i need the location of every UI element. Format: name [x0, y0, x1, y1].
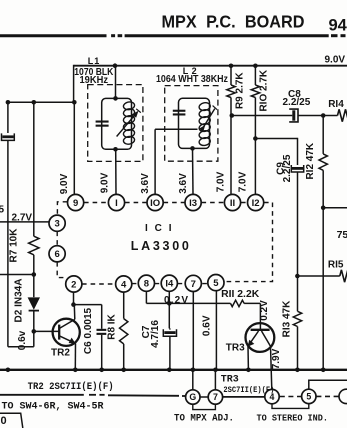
resistor R11 2.2K	[221, 289, 260, 307]
wire 5 to edge connector dashed	[316, 395, 338, 397]
svg-text:R9 2.7K: R9 2.7K	[234, 72, 245, 109]
IC pin 9	[68, 194, 84, 210]
wire C8 to R14 node	[298, 115, 337, 117]
bracket TO MPX ADJ	[193, 404, 216, 409]
svg-text:0: 0	[1, 415, 7, 427]
IC pin 5	[208, 275, 224, 291]
inductor coil in L1	[123, 101, 135, 145]
wire G to 7	[200, 396, 208, 398]
resistor R10 2.7K	[251, 66, 269, 195]
svg-text:RI3 47K: RI3 47K	[281, 300, 292, 337]
wire R7 to D2	[33, 255, 35, 297]
junction dot bus/R8	[121, 368, 126, 373]
capacitor in L2 tank	[173, 110, 186, 116]
svg-text:TR2: TR2	[51, 348, 70, 359]
svg-text:TR3: TR3	[226, 343, 245, 354]
junction dot rail/R9	[229, 64, 234, 69]
TR3 label	[226, 343, 245, 354]
wire C7 to bus	[169, 328, 171, 369]
capacitor C (left, unlabelled)	[2, 133, 15, 140]
junction dot bus/C6	[99, 368, 104, 373]
node 9.0V label (rail)	[325, 55, 346, 66]
wire pin 8 down+elbow	[146, 291, 169, 303]
TR2 label	[51, 348, 70, 359]
svg-text:0.2V: 0.2V	[259, 300, 270, 321]
IC pin 2	[66, 276, 82, 292]
node 5 label (left edge)	[0, 205, 5, 216]
svg-text:RI2 47K: RI2 47K	[305, 142, 316, 179]
svg-text:I4: I4	[165, 279, 174, 290]
IC pin 13	[185, 194, 201, 210]
junction dot left cap line	[6, 100, 11, 105]
node 7.0V label pin11	[215, 171, 226, 192]
wire 7 stub to bus	[214, 370, 216, 390]
svg-text:R7 10K: R7 10K	[9, 228, 20, 263]
wire R11 run	[169, 302, 230, 304]
svg-text:4: 4	[270, 392, 275, 402]
capacitor C8 2.2/25	[283, 89, 311, 122]
svg-text:RI4: RI4	[328, 99, 344, 110]
TR3 type text	[221, 375, 275, 395]
junction dot pin2/C6	[71, 302, 76, 307]
svg-text:1064 WHT 38KHz: 1064 WHT 38KHz	[156, 74, 228, 85]
IC label IC1	[145, 223, 172, 234]
svg-text:7.0V: 7.0V	[215, 171, 226, 192]
wire pin 5 to bus	[215, 291, 217, 370]
IC outline right edge	[224, 203, 272, 282]
transformer L1 label	[88, 56, 101, 66]
node 7.0V label pin12	[238, 171, 249, 192]
node 7.9V label	[271, 348, 282, 369]
capacitor in L1 tank	[96, 121, 109, 127]
svg-text:4: 4	[121, 279, 127, 290]
node 0.2V label TR3 base	[259, 300, 270, 321]
capacitor C6 0.0015	[83, 307, 106, 354]
resistor R9 2.7K	[227, 66, 246, 195]
wire 9.0V rail	[74, 65, 347, 103]
wire 2.7V to pin 3	[0, 221, 49, 223]
resistor R15	[297, 259, 347, 282]
inductor coil in L2	[199, 102, 211, 146]
capacitor C9 2.2/25	[276, 154, 304, 182]
wire branch left at y=274.5	[0, 274, 34, 276]
svg-text:7: 7	[191, 279, 196, 290]
wire pin 2 down	[73, 292, 75, 304]
transformer L2 label	[183, 66, 197, 76]
wire to SW4 line	[0, 395, 186, 396]
svg-text:5: 5	[0, 205, 5, 216]
svg-text:9.0V: 9.0V	[325, 55, 346, 66]
title underline	[0, 34, 346, 37]
wire TR3 emitter to bus	[247, 346, 249, 370]
node 3.6V label pin13	[178, 173, 189, 194]
box with 0 (cut at corner)	[0, 413, 23, 428]
TR2 type text	[28, 381, 114, 393]
text 1064 WHT 38KHz	[156, 74, 228, 85]
wire conn5 elbow to edge	[309, 380, 347, 389]
svg-text:0.6V: 0.6V	[202, 315, 213, 336]
IC outline left edge	[57, 202, 67, 278]
junction dot R7 line top	[32, 100, 37, 105]
transistor TR3 2SC711	[246, 323, 275, 352]
svg-text:3: 3	[54, 219, 59, 230]
junction dot L1 tank top	[113, 96, 118, 101]
IC outline bottom edge	[82, 283, 208, 285]
svg-text:TO SW4-6R, SW4-5R: TO SW4-6R, SW4-5R	[2, 401, 104, 412]
svg-text:9: 9	[73, 198, 78, 209]
wire left horizontal y=102	[8, 101, 74, 103]
wire left cap line lower	[7, 141, 9, 347]
svg-text:2: 2	[71, 279, 76, 290]
text TO MPX ADJ	[174, 413, 234, 424]
svg-text:RI5: RI5	[328, 259, 344, 270]
IC pin 11	[224, 194, 240, 210]
junction dot rail/R10	[253, 64, 258, 69]
svg-text:LA3300: LA3300	[131, 239, 189, 253]
junction dot R12 lower node	[321, 206, 326, 211]
wire TR2 collector	[73, 305, 76, 320]
wire pin 14 down	[168, 291, 170, 328]
node 0.6V label	[202, 315, 213, 336]
svg-text:7.0V: 7.0V	[238, 171, 249, 192]
text 75 (cut at edge)	[337, 229, 347, 241]
svg-text:I3: I3	[189, 198, 197, 209]
svg-text:MPX P.C. BOARD: MPX P.C. BOARD	[162, 12, 305, 32]
resistor R13 47K	[281, 300, 301, 370]
node 2.7V label	[12, 213, 33, 224]
junction dot L1 tank bottom	[113, 147, 118, 152]
resistor R7 10K	[9, 228, 40, 263]
wire to C6 elbow	[74, 304, 102, 306]
wire TR3 collector to conn 4	[271, 346, 272, 389]
junction dot bus/TR2 e	[73, 368, 78, 373]
wire 7 to 4	[223, 396, 265, 398]
svg-text:D2 IN34A: D2 IN34A	[13, 279, 24, 323]
diode D2 1N34A	[13, 279, 40, 323]
svg-text:IO: IO	[150, 198, 160, 209]
IC pin 10	[147, 194, 163, 210]
junction dot L2 tank bottom	[190, 146, 195, 151]
wire D2 to base tee	[33, 311, 35, 347]
junction dot rail/L1 top	[113, 63, 118, 68]
junction dot bus/C7	[167, 368, 172, 373]
svg-text:3.6V: 3.6V	[140, 173, 151, 194]
IC pin 8	[138, 275, 154, 291]
wire C9 to R13 node	[297, 172, 299, 311]
IC pin 12	[248, 194, 264, 210]
junction dot bus/pin7	[191, 368, 196, 373]
capacitor C7 4.7/16	[141, 320, 177, 348]
node 9.0V label pin1	[100, 172, 111, 193]
resistor R8 1K	[106, 292, 128, 370]
node 0.6v label	[17, 330, 28, 350]
svg-text:6: 6	[54, 249, 59, 260]
svg-text:3.6V: 3.6V	[178, 173, 189, 194]
svg-text:4.7/16: 4.7/16	[150, 320, 161, 348]
wire node to right edge y=208	[323, 207, 347, 209]
svg-text:II: II	[230, 198, 235, 209]
wire pin 9 vertical	[73, 102, 75, 194]
svg-text:TR2 2SC7II(E)(F): TR2 2SC7II(E)(F)	[28, 381, 114, 393]
junction dot bus/TR3 e	[246, 368, 251, 373]
junction dot bus/pin5	[213, 368, 218, 373]
svg-text:75: 75	[337, 229, 347, 241]
junction dot R7/D2 branch	[32, 272, 37, 277]
wire base-tee elbow to left line	[8, 346, 34, 348]
wire TR2 emitter to bus	[74, 343, 76, 369]
bracket TO STEREO IND	[272, 404, 309, 409]
bus wire (ground)	[0, 369, 347, 371]
node 9.0V label pin9	[59, 173, 70, 194]
wire C9 branch vertical upper	[297, 138, 299, 165]
node 0.2V label pins8/14	[164, 295, 188, 306]
wire R7 line upper	[33, 102, 35, 236]
svg-text:94: 94	[329, 17, 347, 35]
wire pin 10 vertical	[154, 129, 156, 194]
IC pin 3	[49, 215, 65, 231]
junction dot D2/TR2 base	[32, 329, 37, 334]
svg-text:RIO 2.7K: RIO 2.7K	[258, 69, 269, 111]
svg-text:5: 5	[213, 278, 219, 289]
wire L2 bottom to pin 13	[192, 148, 195, 194]
junction dot bus/R13	[295, 368, 300, 373]
wire pin10 tap into L2	[155, 128, 197, 130]
title text 94	[329, 17, 347, 35]
svg-text:R8 IK: R8 IK	[106, 313, 117, 339]
wire G stub to bus	[192, 370, 194, 390]
wire 4 to 5 dashed	[280, 396, 301, 398]
svg-text:2.2/25: 2.2/25	[283, 97, 311, 108]
wire C8 horizontal	[232, 115, 292, 117]
connector G	[186, 390, 200, 404]
wire TR3 base	[259, 303, 261, 329]
text TO SW4-6R SW4-5R	[2, 401, 104, 412]
wire L1 top to rail	[115, 66, 117, 99]
transistor TR2 2SC711	[53, 319, 80, 346]
wire pin 7 to bus	[192, 292, 194, 370]
connector 4	[265, 389, 279, 403]
svg-text:8: 8	[144, 279, 149, 290]
svg-text:9.0V: 9.0V	[59, 173, 70, 194]
svg-text:TO STEREO IND.: TO STEREO IND.	[257, 412, 329, 423]
svg-text:I: I	[115, 198, 118, 209]
text 19KHz	[80, 75, 109, 86]
IC U1 LA3300 outline top edge	[84, 202, 273, 204]
text 1070 BLK	[74, 67, 114, 78]
junction dot C9/R15 node	[295, 274, 300, 279]
IC pin 7	[185, 275, 201, 291]
title text MPX P.C. BOARD	[162, 12, 305, 32]
svg-text:L1: L1	[88, 56, 101, 66]
IC label LA3300	[131, 239, 189, 253]
junction dot pin9 line	[72, 100, 77, 105]
junction dot pin14 elbow	[167, 301, 172, 306]
svg-text:ICI: ICI	[145, 223, 172, 234]
svg-text:2SC7II(E)(F): 2SC7II(E)(F)	[223, 385, 274, 395]
svg-text:C6 0.0015: C6 0.0015	[83, 307, 94, 354]
wire C6 to bus	[101, 335, 103, 370]
wire C9 branch horizontal	[255, 138, 297, 140]
junction dot C8 tap on pin11 line	[230, 113, 235, 118]
svg-text:I2: I2	[252, 198, 260, 209]
wire left cap line upper	[7, 102, 9, 133]
IC pin 1	[108, 194, 124, 210]
svg-text:5: 5	[306, 392, 311, 402]
svg-text:G: G	[189, 392, 196, 402]
connector 7	[208, 390, 222, 404]
L1 dashed box	[88, 85, 143, 162]
svg-text:9.0V: 9.0V	[100, 172, 111, 193]
connector at right edge (cut)	[339, 389, 347, 403]
svg-text:7.9V: 7.9V	[271, 348, 282, 369]
resistor R14	[328, 99, 347, 122]
L1 tank loop	[102, 98, 132, 149]
L2 dashed box	[165, 86, 218, 162]
junction dot pin12/C9 branch	[253, 136, 258, 141]
junction dot bus/left line	[6, 368, 11, 373]
L1 adjustment arrow	[117, 109, 141, 137]
IC pin 6	[49, 246, 65, 262]
wire TR2 base	[34, 330, 59, 332]
text TO STEREO IND	[257, 412, 329, 423]
svg-text:TO MPX ADJ.: TO MPX ADJ.	[174, 413, 234, 424]
junction dot R14/R12 node	[321, 113, 326, 118]
svg-text:19KHz: 19KHz	[80, 75, 109, 86]
L2 adjustment arrow	[199, 106, 217, 132]
connector 5	[302, 389, 316, 403]
node 3.6V label pin10	[140, 173, 151, 194]
IC pin 14	[161, 275, 177, 291]
svg-text:7: 7	[213, 392, 218, 402]
L2 tank loop	[179, 98, 210, 148]
svg-text:RII 2.2K: RII 2.2K	[221, 289, 260, 300]
wire C6 vertical upper	[101, 305, 103, 329]
IC pin 4	[116, 276, 132, 292]
junction dot bus/R12	[321, 368, 326, 373]
resistor R12 47K	[305, 116, 327, 370]
wire L1 bottom to pin 1	[115, 149, 117, 194]
